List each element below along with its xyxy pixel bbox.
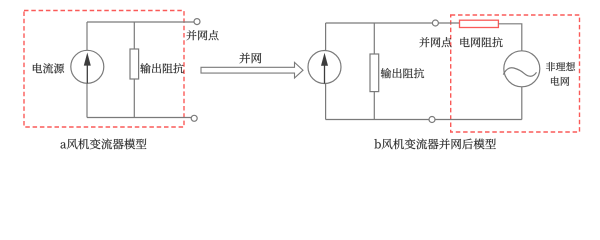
label: non-ideal 非理想 (546, 62, 575, 71)
AC source V1 sine wave (503, 68, 536, 77)
AC source V1 circle (504, 51, 540, 87)
caption a: wind turbine converter model (61, 139, 147, 150)
label: grid point 并网点 (right) (419, 37, 451, 47)
terminal: on right bottom wire (429, 117, 435, 123)
label: output impedance 输出阻抗 (left) (140, 63, 183, 73)
wire: right circuit top (326, 22, 460, 24)
dashed box: converter model a (24, 11, 184, 128)
wire: left circuit left vertical (86, 22, 88, 118)
wire: resistor top stub (left) (133, 22, 135, 49)
terminal: grid connection point top (left circuit) (194, 19, 200, 25)
wire: resistor top stub (right) (373, 23, 375, 54)
terminal: bottom (left circuit) (191, 115, 197, 121)
label: grid impedance 电网阻抗 (460, 37, 502, 47)
dashed box: non-ideal grid model (451, 15, 580, 132)
current source I2 arrow (321, 53, 328, 84)
wire: grid impedance to AC source top (498, 24, 521, 51)
label: grid 电网 (551, 77, 569, 86)
resistor R3 grid impedance (red) (460, 20, 499, 27)
label: grid point 并网点 (left) (186, 30, 218, 40)
label: output impedance 输出阻抗 (right) (381, 68, 424, 78)
terminal: grid point on right top wire (432, 20, 438, 26)
caption b: converter grid-connected model (374, 139, 495, 150)
resistor R2 output impedance (370, 54, 379, 92)
label: 并网 grid connection (239, 53, 261, 64)
current source I1 circle (71, 50, 104, 83)
wire: right circuit bottom (326, 119, 522, 121)
wire: left circuit bottom (87, 117, 191, 119)
wire: right circuit left vertical (325, 23, 327, 120)
block arrow: grid connection (201, 62, 303, 78)
resistor R1 output impedance (130, 49, 139, 79)
wire: AC source bottom to corner (521, 87, 523, 120)
label: current source 电流源 (33, 63, 64, 73)
current source I2 circle (308, 51, 341, 84)
wire: resistor bottom stub (left) (133, 79, 135, 118)
current source I1 arrow (84, 53, 91, 84)
wire: left circuit top, node to grid point (87, 21, 194, 23)
wire: resistor bottom stub (right) (373, 92, 375, 120)
